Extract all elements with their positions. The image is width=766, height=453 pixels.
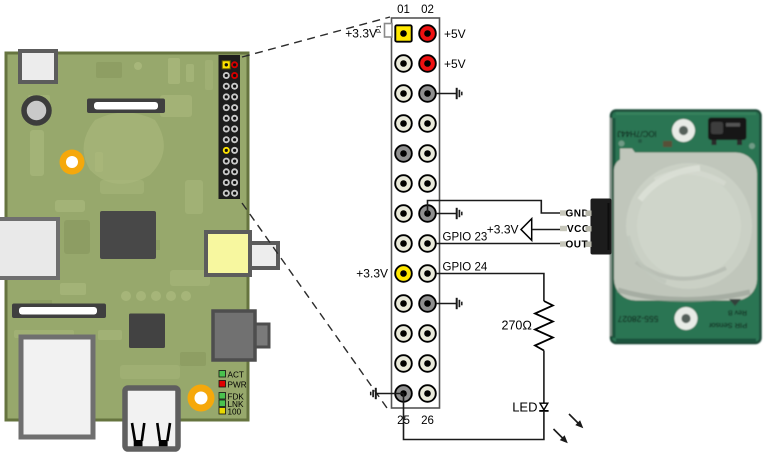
pin 14 (GND): [419, 205, 436, 222]
svg-text:555-28027: 555-28027: [617, 314, 658, 324]
mounting hole (top): [60, 150, 85, 175]
wire pin18 to resistor (GPIO 24): [436, 274, 544, 302]
pin 2 (+5V): [419, 25, 436, 42]
pin 4 (+5V): [419, 55, 436, 72]
PIR pin tip GND: [560, 210, 567, 215]
SD socket (left rectangle): [0, 219, 58, 278]
pin 1 (+3.3V, yellow square): [395, 25, 411, 41]
svg-text:26: 26: [421, 415, 434, 427]
wire pin14 to PIR GND: [428, 201, 565, 214]
LAN chip U2: [129, 314, 165, 349]
pin 5: [395, 85, 412, 102]
pin 21: [395, 325, 412, 342]
board vias: [619, 141, 625, 147]
svg-text:LED: LED: [512, 400, 537, 415]
pin 20 (GND): [419, 295, 436, 312]
pin 26: [419, 385, 436, 402]
pin 10: [419, 145, 436, 162]
svg-text:+3.3V: +3.3V: [345, 27, 377, 41]
pin 16 (GPIO 23): [419, 235, 436, 252]
leader line (dashed, top): [242, 17, 390, 57]
svg-text:+5V: +5V: [444, 57, 466, 71]
svg-text:100: 100: [228, 408, 242, 417]
jumper block: [708, 118, 747, 146]
pin 18 (GPIO 24): [419, 265, 436, 282]
pin 3: [395, 55, 412, 72]
Raspberry Pi board: [0, 51, 278, 449]
fresnel dome lens: [626, 163, 752, 289]
pin 24: [419, 355, 436, 372]
svg-text:PWR: PWR: [228, 381, 247, 390]
header body: [392, 18, 440, 408]
ground (pin 25): [371, 388, 404, 399]
pin 19: [395, 295, 412, 312]
header key notch: [385, 24, 393, 38]
wire pin16 to PIR OUT (GPIO 23): [436, 243, 564, 245]
svg-text:Rev B: Rev B: [728, 309, 747, 316]
svg-text:270Ω: 270Ω: [502, 319, 532, 333]
ground (pin 20): [436, 298, 462, 309]
pin 12: [419, 175, 436, 192]
fresnel lens base: [614, 149, 757, 301]
pin 23: [395, 355, 412, 372]
pin 17 (+3.3V, yellow): [395, 265, 412, 282]
pin 8: [419, 115, 436, 132]
ground (pin 14): [436, 208, 462, 219]
pin 25 (GND): [395, 385, 412, 402]
mounting hole (top): [672, 119, 695, 142]
PIR pin tip OUT: [560, 241, 567, 246]
GPIO header on Pi (P1): [219, 55, 241, 199]
pin 15: [395, 235, 412, 252]
ground (pin 6): [436, 88, 462, 99]
svg-text:+5V: +5V: [444, 27, 466, 41]
RCA video connector (top-left square): [20, 51, 56, 82]
CSI ribbon connector: [12, 304, 106, 319]
svg-text:P1: P1: [376, 25, 383, 33]
svg-text:02: 02: [421, 4, 434, 16]
SD card: [21, 337, 93, 437]
PIR PCB: [611, 111, 761, 344]
mounting hole (bottom): [675, 307, 698, 330]
pin 6 (GND): [419, 85, 436, 102]
+3.3V supply arrow (VCC): [487, 219, 562, 241]
pin 11: [395, 175, 412, 192]
RCA composite video (yellow): [206, 232, 278, 275]
svg-text:OUT: OUT: [566, 240, 589, 251]
PIR 3-pin connector: [586, 199, 612, 255]
DSI ribbon connector: [87, 99, 165, 114]
PIR sensor module (photo): [610, 111, 761, 344]
svg-text:01: 01: [397, 4, 410, 16]
svg-text:+3.3V: +3.3V: [487, 223, 519, 237]
SoC chip U1: [100, 211, 156, 259]
wire LED cathode to pin 25: [404, 394, 544, 440]
pin 13: [395, 205, 412, 222]
svg-text:GPIO 23: GPIO 23: [443, 232, 488, 244]
svg-text:ACT: ACT: [228, 371, 244, 380]
LED light emission arrows: [554, 414, 584, 443]
LED D1: [512, 400, 548, 415]
GPIO pin header diagram P1: [345, 4, 465, 427]
resistor R1 270Ω: [535, 301, 553, 351]
svg-text:+3.3V: +3.3V: [356, 267, 388, 281]
pin 9 (GND): [395, 145, 412, 162]
audio jack: [213, 311, 269, 360]
svg-text:IOC/7H44J: IOC/7H44J: [617, 129, 657, 138]
mounting hole (bottom): [188, 385, 215, 412]
audio jack barrel (circle): [24, 98, 49, 123]
wire resistor to LED: [543, 351, 545, 404]
PIR pin tip VCC: [560, 226, 567, 231]
svg-text:PIR Sensor: PIR Sensor: [708, 321, 747, 330]
leader line (dashed, bottom): [242, 203, 387, 408]
status LEDs: ACT PWR FDX LNK 100: [219, 371, 247, 417]
pin 7: [395, 115, 412, 132]
pin 22: [419, 325, 436, 342]
svg-text:GPIO 24: GPIO 24: [443, 262, 488, 274]
USB port: [125, 388, 178, 449]
